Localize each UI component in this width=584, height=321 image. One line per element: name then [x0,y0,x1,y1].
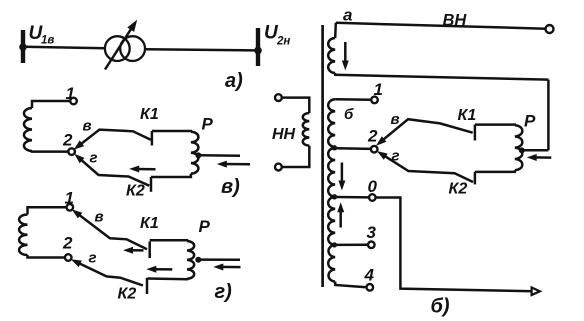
svg-text:Р: Р [199,217,211,236]
selector line g (v) [74,154,149,186]
relay coil P (b) [515,125,523,170]
junction dot P (b) [519,147,525,153]
label 1 (b) [374,80,383,99]
label K2 (v) [126,183,145,200]
wire coil to node2 (g) [28,255,65,258]
relay coil P (v) [191,132,199,174]
wire winding b top to node 1 [335,98,371,101]
label U1v [29,23,55,47]
terminal bar U1 [19,30,27,63]
node 3 terminal (b) [368,242,375,249]
selector line v (b) [376,119,473,146]
svg-text:4: 4 [364,265,375,284]
wire VN top [336,23,546,29]
svg-text:а): а) [225,70,243,92]
wire node1 to coil (v) [32,101,70,108]
svg-text:К2: К2 [126,183,145,200]
selector line g (g) [71,259,143,285]
junction dot P (v) [195,152,201,158]
wire node0 output (b) [376,198,534,292]
switch K1 contact (v) [151,131,154,146]
svg-text:г): г) [215,281,233,303]
wire tap3 to node 3 (b) [336,244,368,247]
svg-text:2: 2 [367,127,378,146]
svg-text:г: г [392,148,400,165]
winding b section 1 [328,99,335,147]
label 3 (b) [367,223,377,242]
svg-text:б): б) [431,296,450,318]
label 1 (g) [65,189,74,208]
svg-text:Р: Р [202,115,214,134]
terminal bar U2 [254,28,262,66]
switch K1 contact (g) [148,242,151,259]
wire HH top [282,98,310,113]
label g (v) [90,150,98,167]
label 0 (b) [368,177,378,196]
label VN [443,12,468,30]
svg-text:в: в [83,118,92,135]
relay coil P (g) [187,241,194,279]
node HH bottom terminal [275,164,282,171]
svg-text:а: а [343,6,352,25]
wire K1 to relay top (b) [475,123,515,126]
svg-text:К2: К2 [449,180,468,197]
label v (b) [391,111,400,128]
svg-text:3: 3 [367,223,377,242]
input arrow P (g) [213,264,240,271]
label K2 (g) [118,285,137,302]
label 2 (g) [62,234,73,253]
node 1 terminal (v) [70,98,77,105]
svg-text:г: г [89,250,97,267]
switch K2 contact (b) [474,172,477,185]
label g (b) [392,148,400,165]
output line P (v) [200,154,240,157]
svg-text:К2: К2 [118,285,137,302]
svg-text:К1: К1 [140,106,159,123]
svg-text:в: в [391,111,400,128]
label K1 (v) [140,106,159,123]
wire variac to U2 [145,49,257,50]
winding HH [303,113,310,146]
tap dot 3 (b) [332,242,337,247]
svg-text:в: в [95,209,104,226]
transformer core [321,25,324,287]
wire tap0 to node 0 (b) [336,196,369,199]
winding b section 2 [328,148,335,197]
wire relay bottom to K2 (b) [475,170,515,172]
label K2 (b) [449,180,468,197]
wire relay bottom to K2 (v) [151,174,191,177]
output arrowhead (b) [532,288,540,296]
variac circle left [105,36,130,61]
wire VN to winding a [334,23,337,38]
output line P (g) [197,258,241,261]
label 2 (b) [367,127,378,146]
label a (b) [343,6,352,25]
wire HH bottom [282,146,310,167]
label b) [431,296,450,318]
switch K2 contact (g) [146,278,149,294]
svg-text:б: б [344,106,354,123]
winding b section 3 [328,197,335,245]
wire K1 to relay top (g) [150,239,187,242]
winding L (v) [24,108,32,151]
label P (v) [202,115,214,134]
selector line v (g) [72,209,147,249]
wire down to relay junction (b) [547,80,550,151]
node 1 terminal (g) [67,204,74,211]
label 2 (v) [62,131,73,150]
arrow under v-line (g) [123,247,144,254]
arrow down in winding a [342,42,349,71]
svg-text:2: 2 [62,131,73,150]
label a) [225,70,243,92]
wire U1 to variac [24,47,106,49]
variac circle right [120,36,145,61]
wire K1 to relay top (v) [152,130,191,133]
arrow down tap (b) [338,163,345,191]
svg-text:1в: 1в [41,35,54,47]
winding a [328,38,335,73]
selector line v (v) [74,130,151,150]
winding b section 4 [328,245,335,282]
svg-text:ВН: ВН [443,12,468,30]
svg-text:К1: К1 [140,215,159,232]
label g) [215,281,233,303]
label b (b) [344,106,354,123]
junction dot P (g) [195,257,201,263]
label 1 (v) [66,84,75,103]
label v (v) [83,118,92,135]
label K1 (g) [140,215,159,232]
winding L (g) [19,215,27,256]
node HH top terminal [275,94,282,101]
node 0 terminal (b) [369,194,376,201]
mid arrow (v) [129,166,155,173]
node VN terminal [546,25,554,33]
svg-text:НН: НН [272,126,296,143]
label HH [272,126,296,143]
svg-text:2н: 2н [276,36,290,48]
label g (g) [89,250,97,267]
node 2 terminal (v) [68,148,75,155]
arrow up tap (b) [337,202,344,227]
svg-text:г: г [90,150,98,167]
wire tap2 to node 2 (b) [336,147,371,150]
input arrow P (v) [217,161,250,168]
wire relay bottom to K2 (g) [148,277,188,280]
tap dot 0 (b) [332,194,337,199]
output line P (b) [523,149,548,152]
svg-text:2: 2 [62,234,73,253]
selector line g (b) [377,151,473,182]
node 2 terminal (g) [65,254,72,261]
input arrow P (b) [527,154,552,161]
svg-text:Р: Р [524,112,536,131]
svg-text:К1: К1 [458,107,477,124]
tap dot 2 (b) [332,145,337,150]
mid arrow (g) [146,266,172,273]
label P (g) [199,217,211,236]
label U2n [264,23,290,48]
wire node1 to coil (g) [28,207,67,214]
switch K1 contact (b) [474,125,477,141]
svg-text:в): в) [221,176,240,198]
label v) [221,176,240,198]
wire winding a bottom to right [335,73,548,80]
wire winding bottom to node 4 (b) [335,282,366,288]
label 4 (b) [364,265,375,284]
switch K2 contact (v) [150,177,153,192]
label P (b) [524,112,536,131]
node 4 terminal (b) [367,284,374,291]
label v (g) [95,209,104,226]
label K1 (b) [458,107,477,124]
node 2 terminal (b) [371,146,378,153]
wire coil to node2 (v) [32,150,68,153]
node 1 terminal (b) [371,97,378,104]
variac adjustment arrow [105,20,137,70]
